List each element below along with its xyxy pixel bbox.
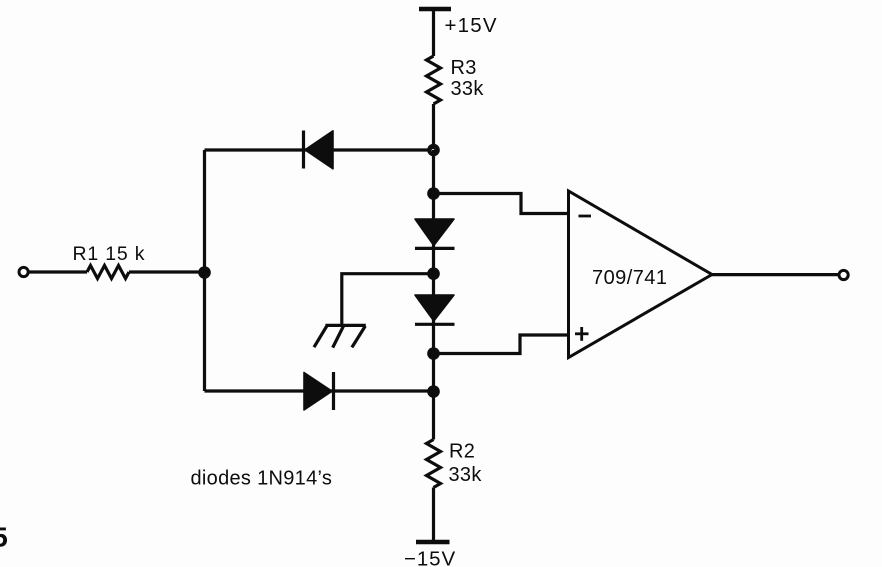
svg-text:R3: R3 xyxy=(451,57,477,79)
wire node C to op-amp inverting input xyxy=(434,194,569,214)
power rail -15V bar xyxy=(416,540,450,545)
diode D1 1N914 (top, cathode left) xyxy=(304,131,334,169)
node E junction dot (to non-inverting input) xyxy=(427,347,440,360)
wire input to R1 xyxy=(29,270,87,273)
wire left vertical rail xyxy=(203,150,206,391)
wire node D to ground xyxy=(342,274,434,326)
svg-text:+15V: +15V xyxy=(445,14,498,37)
svg-text:diodes 1N914’s: diodes 1N914’s xyxy=(191,468,333,490)
resistor R2 33k xyxy=(427,440,441,488)
power rail +15V bar xyxy=(419,7,451,12)
node A junction dot xyxy=(427,144,440,157)
op-amp non-inverting input marker (plus) xyxy=(575,327,589,341)
wire top branch (node A to left rail) xyxy=(205,148,434,151)
wire bus node A to node E xyxy=(432,150,435,392)
op-amp inverting input marker (minus) xyxy=(579,215,592,218)
ground xyxy=(314,325,366,347)
wire bottom branch (left rail to node F) xyxy=(205,389,434,392)
svg-text:33k: 33k xyxy=(451,78,485,100)
node F junction dot xyxy=(427,385,440,398)
wire R3 to node A xyxy=(432,104,435,150)
resistor R3 33k xyxy=(427,56,441,104)
svg-text:709/741: 709/741 xyxy=(592,267,667,289)
wire +15V bar to R3 xyxy=(432,9,435,56)
svg-text:R1 15 k: R1 15 k xyxy=(73,243,146,265)
node C junction dot (to inverting input) xyxy=(427,187,440,200)
wire R2 to -15V bar xyxy=(432,488,435,542)
diode D3 1N914 (lower series, cathode down) xyxy=(415,295,455,324)
node B junction dot xyxy=(198,266,211,279)
wire node F to R2 xyxy=(432,392,435,440)
diode D4 1N914 (bottom, cathode right) xyxy=(304,372,334,410)
output terminal xyxy=(839,270,848,279)
diode D2 1N914 (upper series, cathode down) xyxy=(415,219,455,248)
op-amp U1 709/741 xyxy=(569,191,713,358)
wire op-amp output xyxy=(712,273,839,276)
svg-text:5: 5 xyxy=(0,522,8,553)
wire node E to op-amp non-inverting input xyxy=(434,335,569,354)
wire R1 to node B xyxy=(129,270,205,273)
svg-text:33k: 33k xyxy=(449,464,483,486)
resistor R1 15 k xyxy=(87,266,129,279)
node D junction dot (ground tap) xyxy=(427,267,440,280)
svg-text:−15V: −15V xyxy=(404,548,456,567)
input terminal xyxy=(19,267,28,276)
svg-text:R2: R2 xyxy=(449,441,475,463)
